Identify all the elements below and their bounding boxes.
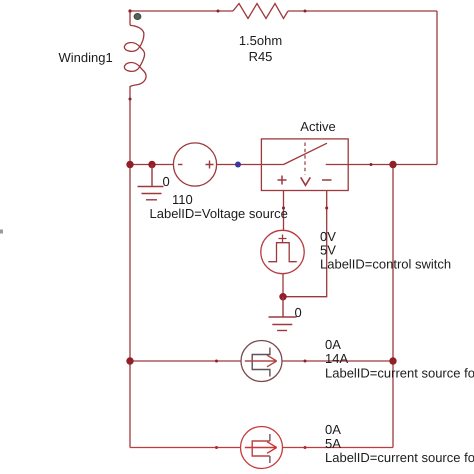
wire switch minus pin down <box>283 191 327 297</box>
current source I1 arrow <box>245 355 277 367</box>
pin dot winding bottom <box>129 98 132 101</box>
current source I2 circle <box>241 427 283 469</box>
current source I2 bracket <box>269 434 271 463</box>
wire left bus vertical <box>129 86 131 448</box>
wire top horizontal right of resistor <box>288 10 437 12</box>
pin dot CS1 left <box>215 360 218 363</box>
pin dot CS2 right <box>304 446 307 449</box>
svg-text:R45: R45 <box>249 49 273 64</box>
junction node right bus row CS1 <box>389 357 396 364</box>
junction node right bus row1 <box>389 161 396 168</box>
pin dot resistor right <box>304 10 307 13</box>
current source I2 arrow <box>245 442 277 454</box>
voltage source U1 circle <box>173 143 216 186</box>
pin dot switch right wire <box>370 163 373 166</box>
current source I1 circle <box>241 341 282 382</box>
wire row1 left segment <box>130 164 174 166</box>
svg-text:LabelID=current source fo: LabelID=current source fo <box>325 366 474 381</box>
svg-text:LabelID=current source fo: LabelID=current source fo <box>325 450 474 465</box>
wire row CS1 right <box>282 360 393 362</box>
pin dot CS1 right <box>304 360 307 363</box>
svg-text:14A: 14A <box>325 351 348 366</box>
ground G2 <box>269 297 297 331</box>
svg-text:LabelID=control switch: LabelID=control switch <box>320 257 451 272</box>
wire left bus top stub <box>129 11 131 25</box>
svg-text:0A: 0A <box>325 337 341 352</box>
wire pulse source bottom <box>282 274 284 297</box>
wire row CS2 left <box>130 447 241 449</box>
wire switch plus pin down <box>283 191 285 231</box>
pin dot CS2 left <box>215 446 218 449</box>
wire right bus vertical <box>392 165 394 448</box>
ground G1 <box>138 165 164 200</box>
pin dot switch minus wire <box>325 207 328 210</box>
switch dashed control line <box>304 143 306 175</box>
svg-text:1.5ohm: 1.5ohm <box>239 33 282 48</box>
svg-text:Active: Active <box>300 119 335 134</box>
svg-text:0: 0 <box>295 305 302 320</box>
pulse source V2 circle <box>261 230 304 273</box>
stray gray mark left edge <box>0 230 3 234</box>
svg-text:0: 0 <box>163 174 170 189</box>
wire top horizontal left of resistor <box>130 10 233 12</box>
svg-text:LabelID=Voltage source: LabelID=Voltage source <box>150 206 288 221</box>
switch minus terminal mark <box>322 179 332 181</box>
switch plus terminal mark <box>278 176 287 185</box>
junction node row1 left <box>126 161 133 168</box>
switch blade diagonal <box>284 143 328 164</box>
pin dot switch plus wire <box>282 207 285 210</box>
pin dot resistor left <box>217 10 220 13</box>
svg-text:Winding1: Winding1 <box>59 50 113 65</box>
wire row1 vsrc to switch <box>217 164 261 166</box>
annotation dot near winding top <box>134 14 141 20</box>
current source I1 bracket <box>252 348 270 377</box>
svg-text:5A: 5A <box>325 436 341 451</box>
switch left contact <box>261 164 283 166</box>
wire switch right to corner <box>348 164 437 166</box>
svg-text:5V: 5V <box>320 243 336 258</box>
switch V terminal mark <box>301 177 311 185</box>
wire right vertical drop <box>436 11 438 165</box>
junction node ground2 <box>279 293 286 300</box>
wire row CS2 right <box>283 447 394 449</box>
switch block outline <box>261 139 348 191</box>
pulse source plus sign <box>279 235 287 243</box>
svg-text:110: 110 <box>172 192 193 207</box>
wire row CS1 left <box>130 360 241 362</box>
voltage source minus sign <box>178 164 183 166</box>
inductor Winding1 coil <box>124 25 146 87</box>
junction node left bus row CS1 <box>126 357 133 364</box>
svg-text:0A: 0A <box>325 422 341 437</box>
pin dot winding top corner <box>128 9 131 12</box>
pulse source waveform <box>268 243 297 262</box>
resistor R45 <box>233 4 288 19</box>
node blue dot <box>235 162 241 168</box>
voltage source plus sign <box>206 161 214 169</box>
junction node ground1 tap <box>148 161 155 168</box>
switch right contact <box>326 164 349 166</box>
